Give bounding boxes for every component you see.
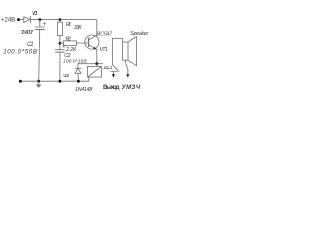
svg-text:1N4148: 1N4148 <box>75 87 92 93</box>
wire speaker jog top <box>112 38 122 42</box>
svg-text:100.0*50В: 100.0*50В <box>3 49 37 56</box>
contact K1.1 blade <box>112 65 118 72</box>
speaker LS <box>123 37 137 66</box>
contact K1.1 fixed lead <box>111 71 117 73</box>
relay coil K1 <box>88 66 102 77</box>
diode VD1 <box>24 16 31 22</box>
wire terminal to VD1 anode <box>20 19 24 21</box>
wire relay coil top stub <box>96 64 98 67</box>
capacitor C1 <box>35 22 45 29</box>
svg-text:+24В: +24В <box>1 17 15 23</box>
resistor R1 <box>57 22 62 36</box>
wire VD2 cathode lead <box>77 64 79 69</box>
wire relay coil to ground riser <box>88 77 90 81</box>
wire emitter down to relay node <box>96 49 98 63</box>
transistor VT1 <box>85 35 99 49</box>
node +24V terminal dot <box>17 18 20 21</box>
node junction dot R1/R2/C2 <box>59 42 62 45</box>
svg-text:BC547: BC547 <box>97 32 112 38</box>
svg-text:R1: R1 <box>66 22 71 28</box>
mechanical link dashes K1 to K1.1 <box>103 67 112 69</box>
svg-text:VD2: VD2 <box>63 73 70 78</box>
node junction dot C1/ground <box>37 80 40 83</box>
wire R1 top lead <box>59 20 61 23</box>
svg-text:1N4007: 1N4007 <box>21 30 34 36</box>
diode VD2 <box>75 68 81 73</box>
node junction dot C1/top rail <box>38 18 41 21</box>
capacitor C2 <box>56 45 66 52</box>
wire speaker feed vertical <box>111 38 113 64</box>
node junction dot C2/ground <box>59 80 62 83</box>
wire R2 right lead to base <box>77 42 89 44</box>
svg-text:R2: R2 <box>66 36 71 42</box>
resistor R2 <box>64 41 77 46</box>
wire ground rail <box>20 80 88 82</box>
svg-text:VD1: VD1 <box>32 11 38 17</box>
ground symbol <box>36 81 42 88</box>
wire VD2 anode to ground rail <box>77 73 79 81</box>
wire top rail VD1 cathode to collector corner <box>30 20 96 36</box>
wire R2 left lead <box>60 42 64 44</box>
wire C2 bottom lead to ground rail <box>59 52 61 81</box>
svg-text:VT1: VT1 <box>100 47 108 53</box>
svg-text:Выход: Выход <box>103 84 119 91</box>
terminal arrow left (to amp output) <box>112 72 115 78</box>
node ground rail left terminal dot <box>19 80 22 83</box>
terminal arrow right (to amp output) <box>126 71 129 77</box>
wire emitter node horizontal (VD2 to right stub) <box>78 63 103 65</box>
wire C1 top lead <box>39 20 41 27</box>
wire C1 bottom lead to ground rail <box>39 30 40 82</box>
svg-text:УМЗЧ: УМЗЧ <box>122 84 141 91</box>
svg-text:C2: C2 <box>64 53 70 59</box>
wire R1 bottom to C2 top <box>59 36 61 50</box>
svg-text:К1.1: К1.1 <box>104 65 113 71</box>
svg-text:33К: 33К <box>74 25 82 31</box>
node junction dot R1/top rail <box>59 18 62 21</box>
svg-text:Speaker: Speaker <box>130 31 148 37</box>
wire speaker bottom slant lead <box>125 60 128 71</box>
node emitter junction dot <box>95 62 98 65</box>
node junction dot VD2/ground <box>77 80 80 83</box>
svg-text:C1: C1 <box>27 42 34 48</box>
